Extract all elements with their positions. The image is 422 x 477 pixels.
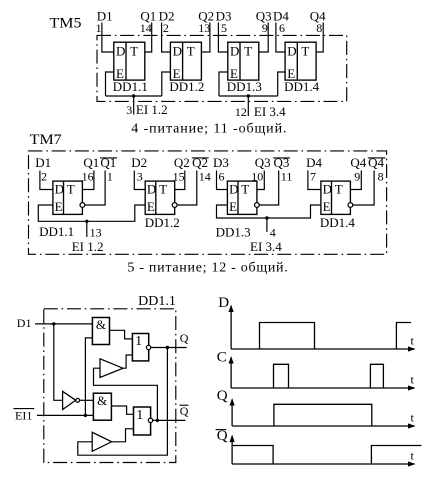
svg-text:9: 9	[354, 170, 360, 184]
svg-text:D: D	[230, 43, 239, 58]
svg-text:6: 6	[219, 170, 225, 184]
svg-text:D1: D1	[35, 155, 51, 170]
svg-text:T: T	[159, 182, 167, 197]
svg-text:7: 7	[310, 170, 316, 184]
svg-text:4 -питание; 11 -общий.: 4 -питание; 11 -общий.	[131, 121, 287, 136]
wire Q4 output	[316, 23, 323, 53]
svg-text:T: T	[244, 43, 252, 58]
wire E input DD1.1	[106, 72, 114, 96]
wire EI1 (logic)	[37, 414, 93, 416]
D-latch DD1.4 (TM5)	[285, 42, 316, 81]
svg-text:D: D	[55, 182, 64, 197]
svg-text:DD1.4: DD1.4	[320, 215, 356, 230]
wire D3 input	[218, 23, 227, 53]
svg-text:Q: Q	[217, 428, 228, 444]
svg-text:Q1: Q1	[83, 155, 99, 170]
output label inverted Q4 (TM7)	[368, 155, 386, 170]
svg-text:&: &	[96, 317, 106, 332]
wire pin 13 stub	[86, 221, 88, 237]
input label EI1 (logic)	[14, 409, 35, 423]
wire Q2 output	[201, 23, 210, 53]
svg-text:14: 14	[140, 21, 152, 35]
svg-text:D: D	[323, 182, 332, 197]
wire Qbar feedback to buffer U4	[94, 368, 158, 420]
wire D1 (logic)	[35, 323, 92, 325]
wire pin 3 stub	[133, 96, 135, 115]
DD1.1 boundary (dash-dot)	[44, 309, 176, 463]
svg-text:E: E	[229, 199, 237, 214]
svg-text:EI 3.4: EI 3.4	[250, 239, 282, 254]
inversion bubble DD1.2	[172, 203, 177, 208]
svg-text:EI 1.2: EI 1.2	[72, 239, 104, 254]
svg-text:T: T	[187, 43, 195, 58]
svg-text:T: T	[241, 182, 249, 197]
svg-text:10: 10	[251, 170, 263, 184]
axis Qbar vertical	[230, 435, 235, 464]
NOR gate U6 (1)	[134, 407, 153, 435]
wire inverter output to AND2	[80, 399, 94, 401]
svg-text:5: 5	[221, 21, 227, 35]
wire D4 input (TM7)	[308, 171, 321, 190]
svg-text:2: 2	[41, 170, 47, 184]
svg-text:4: 4	[270, 226, 276, 240]
svg-text:15: 15	[173, 170, 185, 184]
wire pin 4 stub	[266, 218, 268, 232]
axis D vertical	[229, 305, 234, 350]
wire inverted Q4 output (TM7)	[353, 171, 374, 206]
wire E input DD1.3	[219, 72, 228, 96]
svg-text:DD1.2: DD1.2	[169, 79, 204, 94]
wire E input DD1.2	[162, 72, 171, 96]
wire EI bus 3.4 (TM5)	[219, 95, 278, 97]
svg-text:D2: D2	[131, 155, 147, 170]
junction EI 3.4 (TM7)	[265, 216, 268, 219]
svg-text:1: 1	[136, 408, 143, 423]
svg-text:t: t	[411, 449, 415, 463]
wire Q1 output (TM7)	[82, 171, 94, 190]
output label inverted Q3 (TM7)	[273, 155, 290, 170]
wire D1 input	[102, 23, 114, 53]
D-latch DD1.2 (TM7)	[145, 181, 175, 214]
D-latch DD1.4 (TM7)	[321, 181, 351, 214]
svg-text:1: 1	[135, 334, 142, 349]
wire AND1 output to NOR1	[110, 330, 133, 339]
svg-text:8: 8	[378, 170, 384, 184]
svg-text:C: C	[217, 349, 227, 365]
D-latch DD1.2 (TM5)	[170, 42, 201, 81]
waveform Qbar trace	[232, 446, 421, 465]
wire D1 input (TM7)	[40, 171, 53, 190]
D-latch DD1.1 (TM7)	[53, 181, 83, 214]
wire D1 branch to inverter	[54, 324, 63, 400]
svg-text:Q3: Q3	[255, 155, 271, 170]
output label inverted Q2 (TM7)	[192, 155, 209, 170]
wire Q output (logic)	[151, 347, 187, 349]
svg-text:DD1.1: DD1.1	[39, 224, 74, 239]
svg-text:T: T	[335, 182, 343, 197]
node D1 junction	[52, 322, 55, 325]
inversion bubble DD1.1	[80, 203, 85, 208]
output label inverted Q1 (TM7)	[100, 155, 117, 170]
svg-text:E: E	[147, 199, 155, 214]
svg-text:DD1.2: DD1.2	[145, 215, 180, 230]
wire Q feedback to buffer U7	[78, 349, 168, 455]
wire pin 12 stub	[247, 96, 249, 116]
D-latch DD1.3 (TM5)	[228, 42, 259, 81]
wire D4 input	[276, 23, 285, 53]
svg-text:t: t	[411, 334, 415, 348]
waveform C trace	[274, 364, 384, 388]
wire Qbar output (logic)	[153, 419, 186, 421]
buffer U4 (top)	[100, 359, 123, 378]
junction EI 1.2 (TM7)	[85, 220, 88, 223]
wire inverted Q1 output (TM7)	[85, 171, 105, 206]
svg-text:EI1: EI1	[15, 409, 32, 423]
wire inverted Q2 output (TM7)	[177, 171, 197, 206]
svg-text:T: T	[67, 182, 75, 197]
axis D horizontal (t)	[231, 346, 415, 351]
svg-text:DD1.3: DD1.3	[227, 79, 262, 94]
svg-text:TM7: TM7	[30, 132, 63, 148]
wire D2 input	[162, 23, 171, 53]
junction EI 3.4 (TM5)	[247, 94, 250, 97]
svg-text:D: D	[147, 182, 156, 197]
wire Q1 output	[145, 23, 152, 53]
svg-text:1: 1	[96, 21, 102, 35]
inversion bubble DD1.3	[255, 203, 260, 208]
svg-text:TM5: TM5	[50, 16, 82, 32]
inverter U3	[63, 391, 80, 409]
svg-text:T: T	[130, 43, 138, 58]
svg-text:EI 1.2: EI 1.2	[136, 102, 168, 117]
svg-text:2: 2	[163, 21, 169, 35]
svg-text:Q: Q	[180, 404, 189, 418]
svg-text:1: 1	[107, 170, 113, 184]
svg-text:t: t	[411, 411, 415, 425]
svg-text:D1: D1	[17, 316, 32, 330]
axis C horizontal (t)	[231, 385, 415, 390]
svg-text:13: 13	[90, 226, 102, 240]
axis Q vertical	[230, 398, 235, 426]
svg-text:DD1.1: DD1.1	[138, 294, 176, 309]
D-latch DD1.3 (TM7)	[227, 181, 257, 214]
svg-text:&: &	[97, 393, 107, 408]
svg-text:Q: Q	[180, 331, 189, 345]
inversion bubble DD1.4	[348, 203, 353, 208]
wire AND2 output to NOR2	[111, 406, 133, 414]
svg-text:D: D	[287, 43, 296, 58]
NOR gate U2 (1)	[132, 334, 150, 361]
node Qbar junction	[156, 419, 159, 422]
svg-text:Q2: Q2	[174, 155, 190, 170]
node Q junction	[166, 346, 169, 349]
svg-text:D: D	[116, 43, 125, 58]
TM7 IC boundary (dash-dot)	[29, 151, 387, 254]
wire Q3 output	[259, 23, 268, 53]
svg-text:3: 3	[137, 170, 143, 184]
AND gate U1 (&)	[92, 317, 109, 345]
waveform D trace	[260, 323, 412, 350]
axis C vertical	[229, 356, 234, 388]
svg-text:13: 13	[198, 21, 210, 35]
svg-text:T: T	[301, 43, 309, 58]
wire Q4 output (TM7)	[350, 171, 361, 190]
wire EI bus 1.2 (TM7)	[38, 205, 145, 221]
svg-text:t: t	[411, 373, 415, 387]
node EI1 junction	[84, 414, 87, 417]
svg-text:E: E	[323, 199, 331, 214]
svg-text:Q4: Q4	[350, 155, 366, 170]
svg-text:DD1.4: DD1.4	[284, 79, 320, 94]
svg-text:EI 3.4: EI 3.4	[254, 104, 286, 119]
wire D2 input (TM7)	[134, 171, 145, 190]
svg-text:E: E	[55, 199, 63, 214]
svg-text:DD1.3: DD1.3	[216, 225, 251, 240]
svg-text:Q: Q	[217, 388, 228, 404]
TM5 IC boundary (dash-dot)	[97, 35, 347, 101]
AND gate U5 (&)	[93, 393, 111, 420]
svg-text:6: 6	[279, 21, 285, 35]
svg-text:D: D	[173, 43, 182, 58]
svg-text:D4: D4	[306, 155, 322, 170]
D-latch DD1.1 (TM5)	[114, 42, 145, 81]
wire buffer U7 output to NOR2	[112, 429, 134, 442]
svg-text:D: D	[218, 295, 229, 311]
wire inverted Q3 output (TM7)	[259, 171, 279, 206]
wire EI1 branch to AND1	[85, 338, 92, 416]
waveform Q trace	[274, 404, 372, 426]
wire E input DD1.4	[278, 72, 285, 96]
svg-text:16: 16	[82, 170, 94, 184]
svg-text:3: 3	[126, 103, 132, 117]
wire EI bus 3.4 (TM7)	[217, 205, 321, 218]
axis Qbar horizontal (t)	[232, 461, 415, 466]
wire D3 input (TM7)	[217, 171, 228, 190]
axis Q horizontal (t)	[232, 423, 415, 428]
buffer U7 (bottom)	[92, 432, 112, 451]
junction EI 1.2 (TM5)	[132, 94, 135, 97]
wire Q3 output (TM7)	[257, 171, 264, 190]
svg-text:8: 8	[316, 21, 322, 35]
wire EI bus 1.2 (TM5)	[106, 95, 162, 97]
svg-text:9: 9	[262, 21, 268, 35]
svg-text:D3: D3	[213, 155, 229, 170]
wire Q2 output (TM7)	[175, 171, 185, 190]
svg-text:DD1.1: DD1.1	[113, 79, 148, 94]
output label Qbar (logic)	[180, 404, 189, 418]
wire buffer U4 output to NOR1	[123, 355, 132, 368]
waveform label Qbar	[216, 428, 228, 444]
svg-text:11: 11	[281, 170, 293, 184]
svg-text:D: D	[229, 182, 238, 197]
svg-text:14: 14	[199, 170, 211, 184]
svg-text:12: 12	[235, 105, 247, 119]
svg-text:5 - питание; 12 - общий.: 5 - питание; 12 - общий.	[127, 261, 288, 276]
